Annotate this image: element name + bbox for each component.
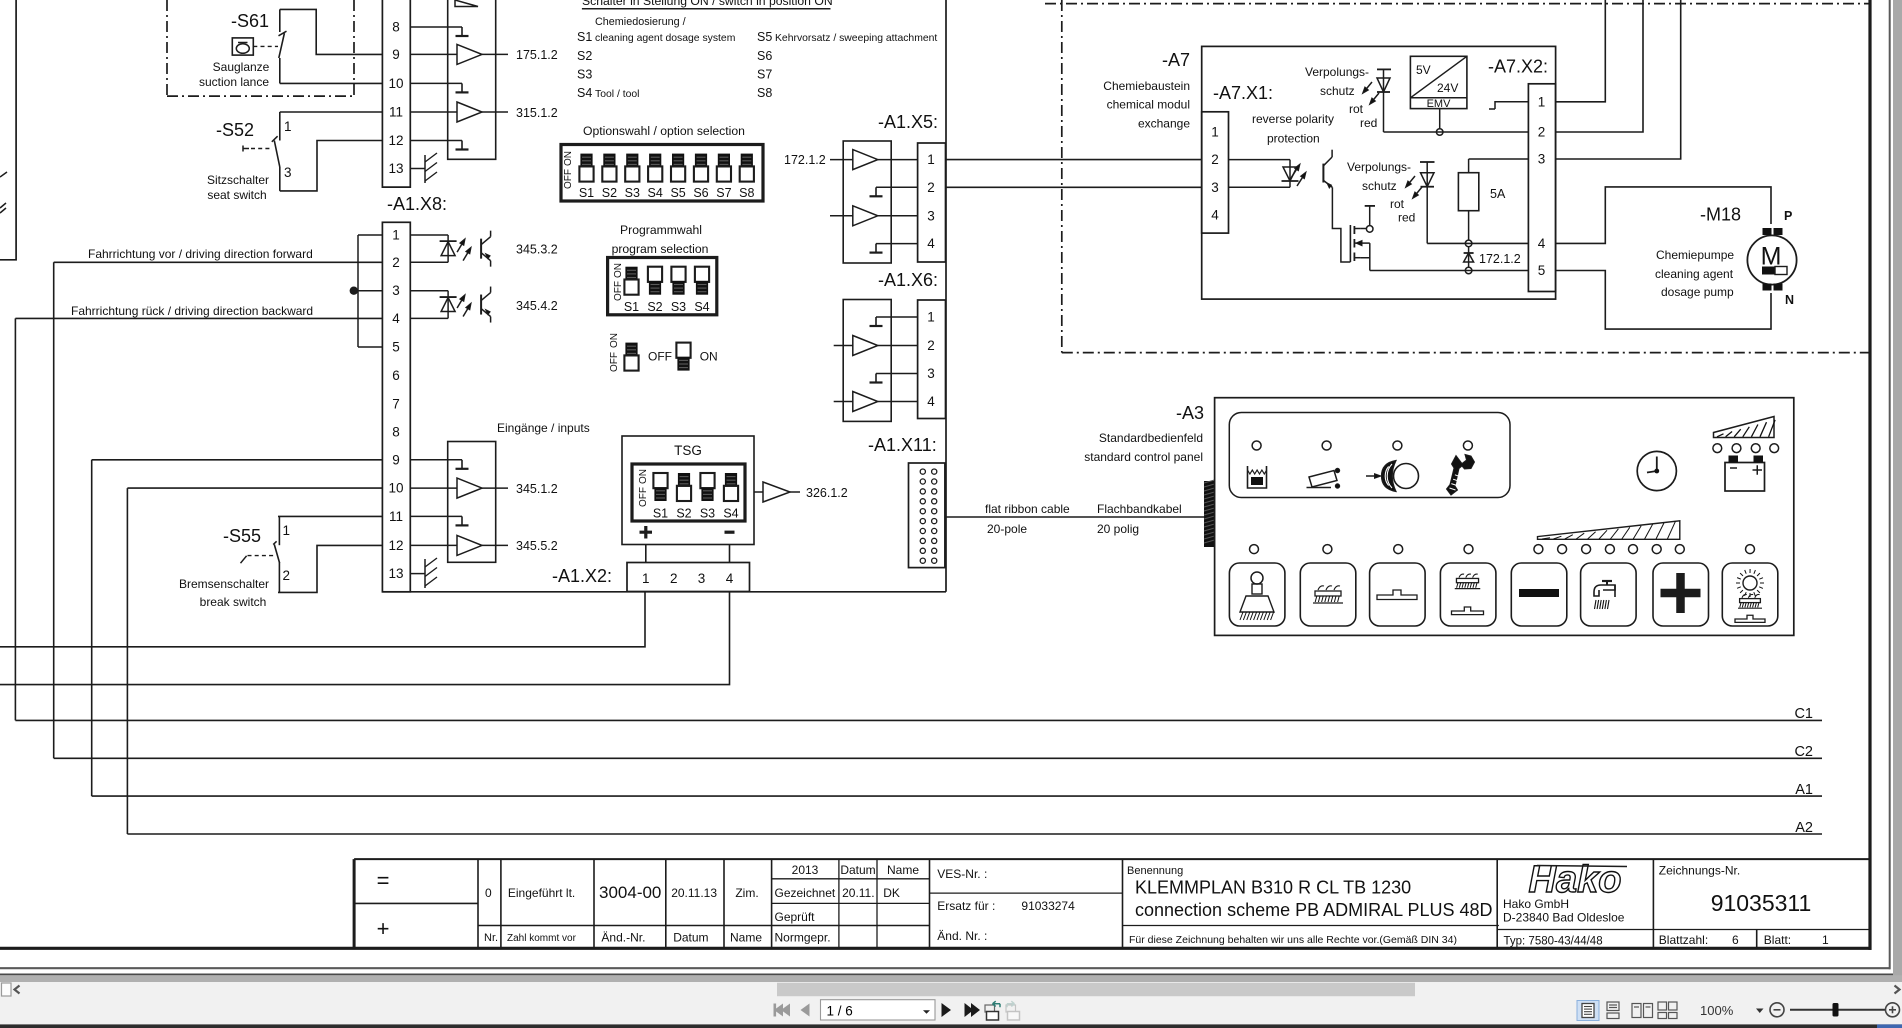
svg-text:Bremsenschalter: Bremsenschalter (179, 577, 269, 591)
svg-text:1 / 6: 1 / 6 (827, 1004, 853, 1019)
svg-text:3: 3 (927, 208, 935, 223)
svg-text:Name: Name (730, 931, 762, 945)
svg-text:cleaning agent: cleaning agent (1655, 267, 1734, 281)
svg-text:Programmwahl: Programmwahl (620, 223, 702, 237)
button brush+squeegee (1440, 563, 1496, 626)
layout single page (active) (1577, 1001, 1599, 1021)
option boundary dash-dot left (1061, 0, 1063, 353)
drawing frame right (1868, 0, 1871, 950)
svg-text:Optionswahl / option selection: Optionswahl / option selection (583, 124, 745, 138)
svg-text:S8: S8 (757, 86, 772, 100)
svg-text:rot: rot (1390, 197, 1405, 211)
buffer triangle X5.3 (853, 206, 878, 226)
opto transistor (480, 239, 482, 259)
svg-text:S1: S1 (653, 507, 668, 521)
button squeegee (1370, 563, 1426, 626)
h-scrollbar thumb (777, 983, 1415, 996)
battery indicator LED (1713, 444, 1722, 453)
svg-text:schutz: schutz (1362, 179, 1397, 193)
svg-text:Sauglanze: Sauglanze (213, 60, 270, 74)
connector A7.X2 body (1528, 84, 1555, 292)
pin13 chassis ground (410, 573, 425, 575)
wire X8 pin 9 horizontal (92, 459, 383, 461)
input buffer box X7 (448, 0, 496, 159)
water level LEDs (1534, 545, 1543, 554)
wire X2.5 to M18 (1556, 271, 1771, 330)
nav last page button (965, 1003, 981, 1017)
controller A1 bottom edge (382, 591, 946, 593)
battery indicator LED (1732, 444, 1741, 453)
net line C1 (15, 719, 1822, 721)
TSG DIP S1 (653, 473, 667, 488)
svg-text:S3: S3 (700, 507, 715, 521)
wire X2.3 up (1556, 0, 1681, 159)
svg-text:ON: ON (700, 350, 718, 364)
svg-text:13: 13 (388, 566, 403, 581)
input symbol X6.3 (876, 373, 918, 375)
connector A1.X7 body (382, 0, 410, 187)
svg-text:Verpolungs-: Verpolungs- (1347, 160, 1411, 174)
svg-text:Änd.-Nr.: Änd.-Nr. (601, 931, 645, 945)
wire pin12 (410, 544, 457, 546)
option DIP S6 (ON) (695, 154, 707, 168)
svg-text:S4: S4 (694, 300, 709, 314)
wire (447, 235, 449, 262)
svg-text:1: 1 (392, 228, 400, 243)
svg-text:S2: S2 (676, 507, 691, 521)
battery indicator LED (1770, 444, 1779, 453)
S55 actuator symbol (241, 556, 247, 563)
svg-text:red: red (1398, 211, 1415, 225)
svg-text:-S61: -S61 (231, 11, 269, 31)
output wire 345.5.2 (482, 544, 508, 546)
opto transistor (480, 295, 482, 315)
svg-text:chemical modul: chemical modul (1107, 98, 1190, 112)
net line A2 (127, 833, 1822, 835)
svg-text:Fahrrichtung rück / driving di: Fahrrichtung rück / driving direction ba… (71, 304, 313, 318)
nav next page button (942, 1003, 952, 1017)
h-scrollbar left box (2, 983, 12, 996)
buffer triangle row9 (457, 44, 482, 64)
connector A1.X2 body (627, 563, 750, 592)
svg-text:S7: S7 (716, 186, 731, 200)
svg-text:Gezeichnet: Gezeichnet (775, 886, 836, 900)
input symbol X5.2 (876, 186, 918, 188)
wire pin11 + input symbol (410, 515, 462, 517)
battery charge ramp (1714, 417, 1775, 438)
svg-text:Eingänge / inputs: Eingänge / inputs (497, 421, 590, 435)
svg-text:=: = (377, 868, 390, 893)
title block (353, 859, 356, 948)
connector A1.X6 body (918, 300, 946, 419)
zoom out circle (1770, 1003, 1784, 1017)
panel A3 box (1215, 398, 1794, 636)
wire pin9 (410, 53, 457, 55)
legend switch ON example (625, 343, 637, 357)
svg-text:reverse polarity: reverse polarity (1252, 112, 1334, 126)
buffer box X5 (843, 141, 891, 263)
wire pin10 + input symbol (410, 82, 462, 84)
svg-text:Benennung: Benennung (1127, 865, 1183, 877)
wire S55 pin1 to X8 pin 11 (278, 515, 382, 517)
wire X8 pin 10 horizontal (127, 487, 382, 489)
svg-text:S4: S4 (577, 86, 592, 100)
wire X2.4 to M18 (1556, 187, 1771, 244)
svg-text:dosage pump: dosage pump (1661, 285, 1734, 299)
svg-text:+: + (377, 916, 390, 941)
icon tank empty (1248, 466, 1267, 488)
svg-text:11: 11 (389, 509, 403, 524)
net line A1 (92, 795, 1822, 797)
svg-text:seat switch: seat switch (207, 188, 266, 202)
battery symbol (1725, 463, 1765, 492)
icon squeegee lift (1309, 471, 1337, 488)
svg-text:Sitzschalter: Sitzschalter (207, 173, 269, 187)
nav first page button (774, 1004, 791, 1017)
TSG DIP S4 (725, 473, 737, 487)
wire TSG+ to X2 pin1 (645, 545, 647, 563)
svg-text:315.1.2: 315.1.2 (516, 106, 558, 120)
svg-text:Für diese Zeichnung behalten w: Für diese Zeichnung behalten wir uns all… (1129, 934, 1457, 946)
svg-text:4: 4 (726, 571, 734, 586)
svg-text:S1: S1 (579, 186, 594, 200)
option DIP S1 (ON) (580, 154, 592, 168)
button side brush (1229, 563, 1285, 626)
sign table (772, 878, 930, 880)
LED1 arrows (1367, 82, 1372, 88)
svg-text:S3: S3 (671, 300, 686, 314)
svg-text:cleaning agent dosage system: cleaning agent dosage system (595, 33, 735, 44)
icon suction fan (1366, 475, 1375, 477)
wire (447, 291, 449, 319)
wire opto emitter to gate (1332, 187, 1350, 262)
connector A1.X5 body (918, 143, 946, 262)
svg-text:1: 1 (284, 119, 292, 134)
svg-text:A1: A1 (1795, 782, 1813, 798)
button scrub brush (1300, 563, 1356, 626)
layout continuous (1607, 1002, 1619, 1019)
input buffer box X8 (448, 442, 496, 563)
clock symbol (1637, 451, 1676, 490)
svg-text:2: 2 (1538, 125, 1546, 140)
connector A7.X1 body (1202, 112, 1229, 233)
TSG minus terminal (725, 531, 735, 534)
opto LED (440, 240, 457, 242)
wire pin12 + input symbol (410, 140, 462, 142)
buffer triangle row12 (457, 535, 482, 555)
VES cell (930, 892, 1123, 894)
svg-text:Flachbandkabel: Flachbandkabel (1097, 502, 1182, 516)
svg-text:flat ribbon cable: flat ribbon cable (985, 502, 1070, 516)
svg-text:ON: ON (613, 263, 624, 278)
buffer triangle X5.1 (853, 150, 878, 170)
ribbon cable wire (946, 516, 1204, 518)
option boundary dash-dot top (1045, 3, 1869, 5)
svg-text:-M18: -M18 (1700, 205, 1741, 225)
button indicator LEDs (1250, 545, 1259, 554)
wire A1.X2 pin1 to left edge (0, 592, 645, 647)
optocoupler rows 1-2 (410, 234, 448, 236)
svg-text:break switch: break switch (200, 595, 267, 609)
svg-text:6: 6 (1732, 933, 1739, 947)
button water tap (1581, 563, 1637, 626)
cut-off module box (page edge) (0, 0, 16, 260)
svg-text:Fahrrichtung vor / driving dir: Fahrrichtung vor / driving direction for… (88, 247, 313, 261)
svg-text:-A1.X8:: -A1.X8: (387, 194, 447, 214)
svg-text:OFF: OFF (648, 350, 672, 364)
svg-text:345.4.2: 345.4.2 (516, 299, 558, 313)
TSG DIP S3 (700, 473, 714, 488)
indicator LED (1463, 441, 1472, 450)
switch S55 contact (278, 516, 280, 545)
svg-text:-A3: -A3 (1176, 403, 1204, 423)
switch S61 contact (279, 9, 281, 32)
svg-text:Kehrvorsatz / sweeping attachm: Kehrvorsatz / sweeping attachment (775, 33, 937, 44)
output wire 315.1.2 (482, 111, 508, 113)
indicator LED (1252, 441, 1261, 450)
buffer triangle row10 (457, 478, 482, 498)
wire S52 pin3 to X7 pin 12 (280, 141, 383, 191)
svg-text:5: 5 (1538, 263, 1546, 278)
optocoupler rows 3-4 (410, 290, 448, 292)
svg-text:4: 4 (927, 236, 935, 251)
source wire to pin5 rail (1361, 243, 1370, 270)
option boundary dash-dot bottom (1062, 352, 1869, 354)
svg-text:-S52: -S52 (216, 120, 254, 140)
legend switch OFF example (676, 343, 690, 358)
svg-text:standard control panel: standard control panel (1084, 450, 1203, 464)
svg-text:6: 6 (392, 368, 400, 383)
svg-text:10: 10 (388, 481, 403, 496)
dashed option boundary around S61 (166, 0, 168, 96)
wire pin9 + input symbol (410, 459, 462, 461)
svg-text:-A7.X1:: -A7.X1: (1213, 83, 1273, 103)
svg-text:S2: S2 (602, 186, 617, 200)
svg-text:program selection: program selection (612, 242, 709, 256)
cut-off opto arrows (0, 172, 7, 177)
svg-text:Zim.: Zim. (735, 886, 758, 900)
svg-text:S7: S7 (757, 68, 772, 82)
drawing frame bottom (0, 947, 1872, 950)
svg-text:5A: 5A (1490, 187, 1506, 201)
opto LED (440, 296, 457, 298)
svg-text:connection scheme PB ADMIRAL P: connection scheme PB ADMIRAL PLUS 48D (1135, 900, 1493, 920)
wire backward vertical (14, 318, 16, 720)
wire A1.X2 pin4 to left edge (0, 592, 730, 685)
svg-text:Standardbedienfeld: Standardbedienfeld (1099, 431, 1203, 445)
svg-text:5V: 5V (1416, 63, 1431, 77)
svg-text:DK: DK (883, 886, 900, 900)
svg-text:-A1.X6:: -A1.X6: (878, 270, 938, 290)
LED D2 red (1420, 161, 1435, 163)
TSG DIP S2 (678, 473, 690, 487)
svg-text:2013: 2013 (792, 863, 819, 877)
svg-text:12: 12 (388, 133, 403, 148)
svg-text:OFF: OFF (638, 487, 649, 507)
S52 actuator symbol (242, 146, 244, 152)
svg-text:P: P (1784, 209, 1792, 223)
svg-text:13: 13 (388, 161, 403, 176)
wire pin3 with junction (358, 290, 382, 292)
svg-text:-A1.X2:: -A1.X2: (552, 566, 612, 586)
svg-text:7: 7 (392, 396, 400, 411)
svg-text:Geprüft: Geprüft (775, 910, 816, 924)
svg-text:Typ: 7580-43/44/48: Typ: 7580-43/44/48 (1504, 936, 1603, 948)
svg-text:91033274: 91033274 (1021, 899, 1075, 913)
wire X5.1 to A7.X1.2 (946, 159, 1202, 161)
partial buffer row7 (455, 0, 478, 7)
TSG plus terminal (640, 526, 653, 539)
motor M18 (1747, 235, 1796, 284)
output wire 175.1.2 (482, 53, 508, 55)
svg-text:schutz: schutz (1320, 84, 1355, 98)
wire pin11 (410, 111, 457, 113)
svg-text:Zeichnungs-Nr.: Zeichnungs-Nr. (1659, 864, 1740, 878)
svg-text:4: 4 (1538, 236, 1546, 251)
svg-text:suction lance: suction lance (199, 75, 269, 89)
svg-text:C2: C2 (1794, 744, 1813, 760)
TSG DIP box (632, 464, 745, 521)
indicator LED (1322, 441, 1331, 450)
next view button (disabled) (1006, 1001, 1020, 1020)
wire LED1 to X2 pin2 (1384, 131, 1529, 133)
svg-text:345.1.2: 345.1.2 (516, 482, 558, 496)
net line C2 (54, 757, 1822, 759)
svg-text:OFF: OFF (563, 169, 574, 189)
svg-text:protection: protection (1267, 132, 1320, 146)
svg-text:2: 2 (927, 338, 935, 353)
battery indicator LED (1751, 444, 1760, 453)
A7 opto transistor (1322, 164, 1324, 183)
program DIP S2 (648, 267, 662, 282)
svg-text:175.1.2: 175.1.2 (516, 48, 558, 62)
svg-text:2: 2 (392, 255, 400, 270)
svg-text:KLEMMPLAN B310 R CL TB 1230: KLEMMPLAN B310 R CL TB 1230 (1135, 878, 1411, 898)
test point pin5 (1465, 267, 1472, 274)
svg-text:11: 11 (389, 105, 403, 120)
svg-text:20 polig: 20 polig (1097, 522, 1139, 536)
svg-text:10: 10 (388, 76, 403, 91)
svg-text:EMV: EMV (1427, 98, 1452, 110)
svg-text:Blatt:: Blatt: (1764, 933, 1791, 947)
svg-text:S4: S4 (723, 507, 738, 521)
wire bracket pins 1-5 (357, 235, 359, 347)
wire X8 pin 10 vertical (126, 488, 128, 834)
svg-text:Name: Name (887, 863, 919, 877)
svg-text:Tool / tool: Tool / tool (595, 89, 639, 100)
pin13 chassis ground (410, 168, 425, 170)
DC converter 5V 24V EMV (1410, 56, 1467, 108)
switch S52 contact (279, 112, 281, 141)
svg-text:OFF: OFF (609, 352, 620, 372)
button auto (1722, 563, 1778, 626)
svg-text:1: 1 (642, 571, 650, 586)
LED D1 red (1377, 68, 1391, 70)
svg-text:Chemiedosierung /: Chemiedosierung / (595, 16, 686, 28)
buffer box X6 (843, 300, 891, 422)
dashed actuator link (253, 45, 278, 47)
option DIP switch box (561, 145, 763, 202)
program DIP S1 (625, 267, 637, 281)
input wire X6.4 (834, 401, 853, 403)
svg-text:A2: A2 (1795, 820, 1813, 836)
svg-text:326.1.2: 326.1.2 (806, 486, 848, 500)
svg-text:Datum: Datum (840, 863, 875, 877)
svg-text:S6: S6 (693, 186, 708, 200)
program DIP S3 (671, 267, 685, 282)
svg-text:Zahl kommt vor: Zahl kommt vor (507, 933, 577, 944)
connector A1.X8 body (382, 222, 410, 592)
wire TSG- to X2 pin4 (729, 545, 731, 563)
button minus (1511, 563, 1567, 626)
svg-text:Chemiebaustein: Chemiebaustein (1103, 79, 1190, 93)
buffer triangle row11 (457, 102, 482, 122)
svg-text:S3: S3 (625, 186, 640, 200)
svg-text:1: 1 (927, 310, 935, 325)
svg-text:S1: S1 (577, 30, 592, 44)
optocoupler A7 input (1229, 159, 1291, 161)
svg-text:Änd. Nr. :: Änd. Nr. : (937, 929, 987, 943)
svg-text:S1: S1 (624, 300, 639, 314)
wire X8 pin 9 vertical (91, 460, 93, 796)
wire pin10 (410, 487, 457, 489)
h-scrollbar left arrow (15, 986, 20, 994)
wire S61 to pin 10 (280, 82, 383, 84)
svg-text:20.11.13: 20.11.13 (671, 886, 717, 900)
svg-text:-A7.X2:: -A7.X2: (1488, 57, 1548, 77)
nav prev page button (801, 1004, 810, 1017)
svg-text:100%: 100% (1700, 1003, 1734, 1018)
wire pin8 + input symbol (410, 26, 462, 28)
layout two continuous (1658, 1002, 1677, 1019)
MOSFET Q1 (1349, 225, 1351, 262)
svg-text:Verpolungs-: Verpolungs- (1305, 65, 1369, 79)
svg-text:D-23840 Bad Oldesloe: D-23840 Bad Oldesloe (1503, 911, 1625, 925)
wire X5.2 to A7.X1.3 (946, 186, 1202, 188)
svg-text:-A1.X11:: -A1.X11: (868, 435, 937, 455)
wire LED2 to X2 pin4 (1427, 242, 1528, 244)
fuse 5A (1458, 173, 1478, 211)
svg-text:Ersatz für :: Ersatz für : (937, 899, 995, 913)
TSG output buffer (754, 491, 763, 493)
svg-text:3: 3 (392, 283, 400, 298)
buffer triangle X6.4 (853, 392, 878, 412)
buffer triangle X6.2 (853, 336, 878, 356)
svg-text:red: red (1360, 116, 1377, 130)
svg-text:VES-Nr. :: VES-Nr. : (937, 867, 987, 881)
svg-text:1: 1 (1538, 94, 1546, 109)
svg-text:Chemiepumpe: Chemiepumpe (1656, 248, 1734, 262)
svg-text:ON: ON (563, 151, 574, 166)
svg-text:24V: 24V (1437, 81, 1458, 95)
svg-text:172.1.2: 172.1.2 (784, 153, 826, 167)
option DIP S8 (ON) (741, 154, 753, 168)
svg-text:ON: ON (609, 333, 620, 348)
TSG module box (622, 436, 754, 545)
svg-text:Blattzahl:: Blattzahl: (1659, 933, 1708, 947)
svg-text:172.1.2: 172.1.2 (1479, 252, 1521, 266)
A7 opto LED (1282, 180, 1299, 182)
svg-text:345.5.2: 345.5.2 (516, 539, 558, 553)
svg-text:-S55: -S55 (223, 526, 261, 546)
svg-text:S4: S4 (648, 186, 663, 200)
svg-text:9: 9 (392, 47, 400, 62)
option DIP S7 (ON) (718, 154, 730, 168)
svg-text:2: 2 (283, 568, 291, 583)
svg-text:Nr.: Nr. (484, 932, 498, 944)
h-scrollbar right arrow (1895, 986, 1900, 994)
test point pin4 (1465, 240, 1472, 247)
